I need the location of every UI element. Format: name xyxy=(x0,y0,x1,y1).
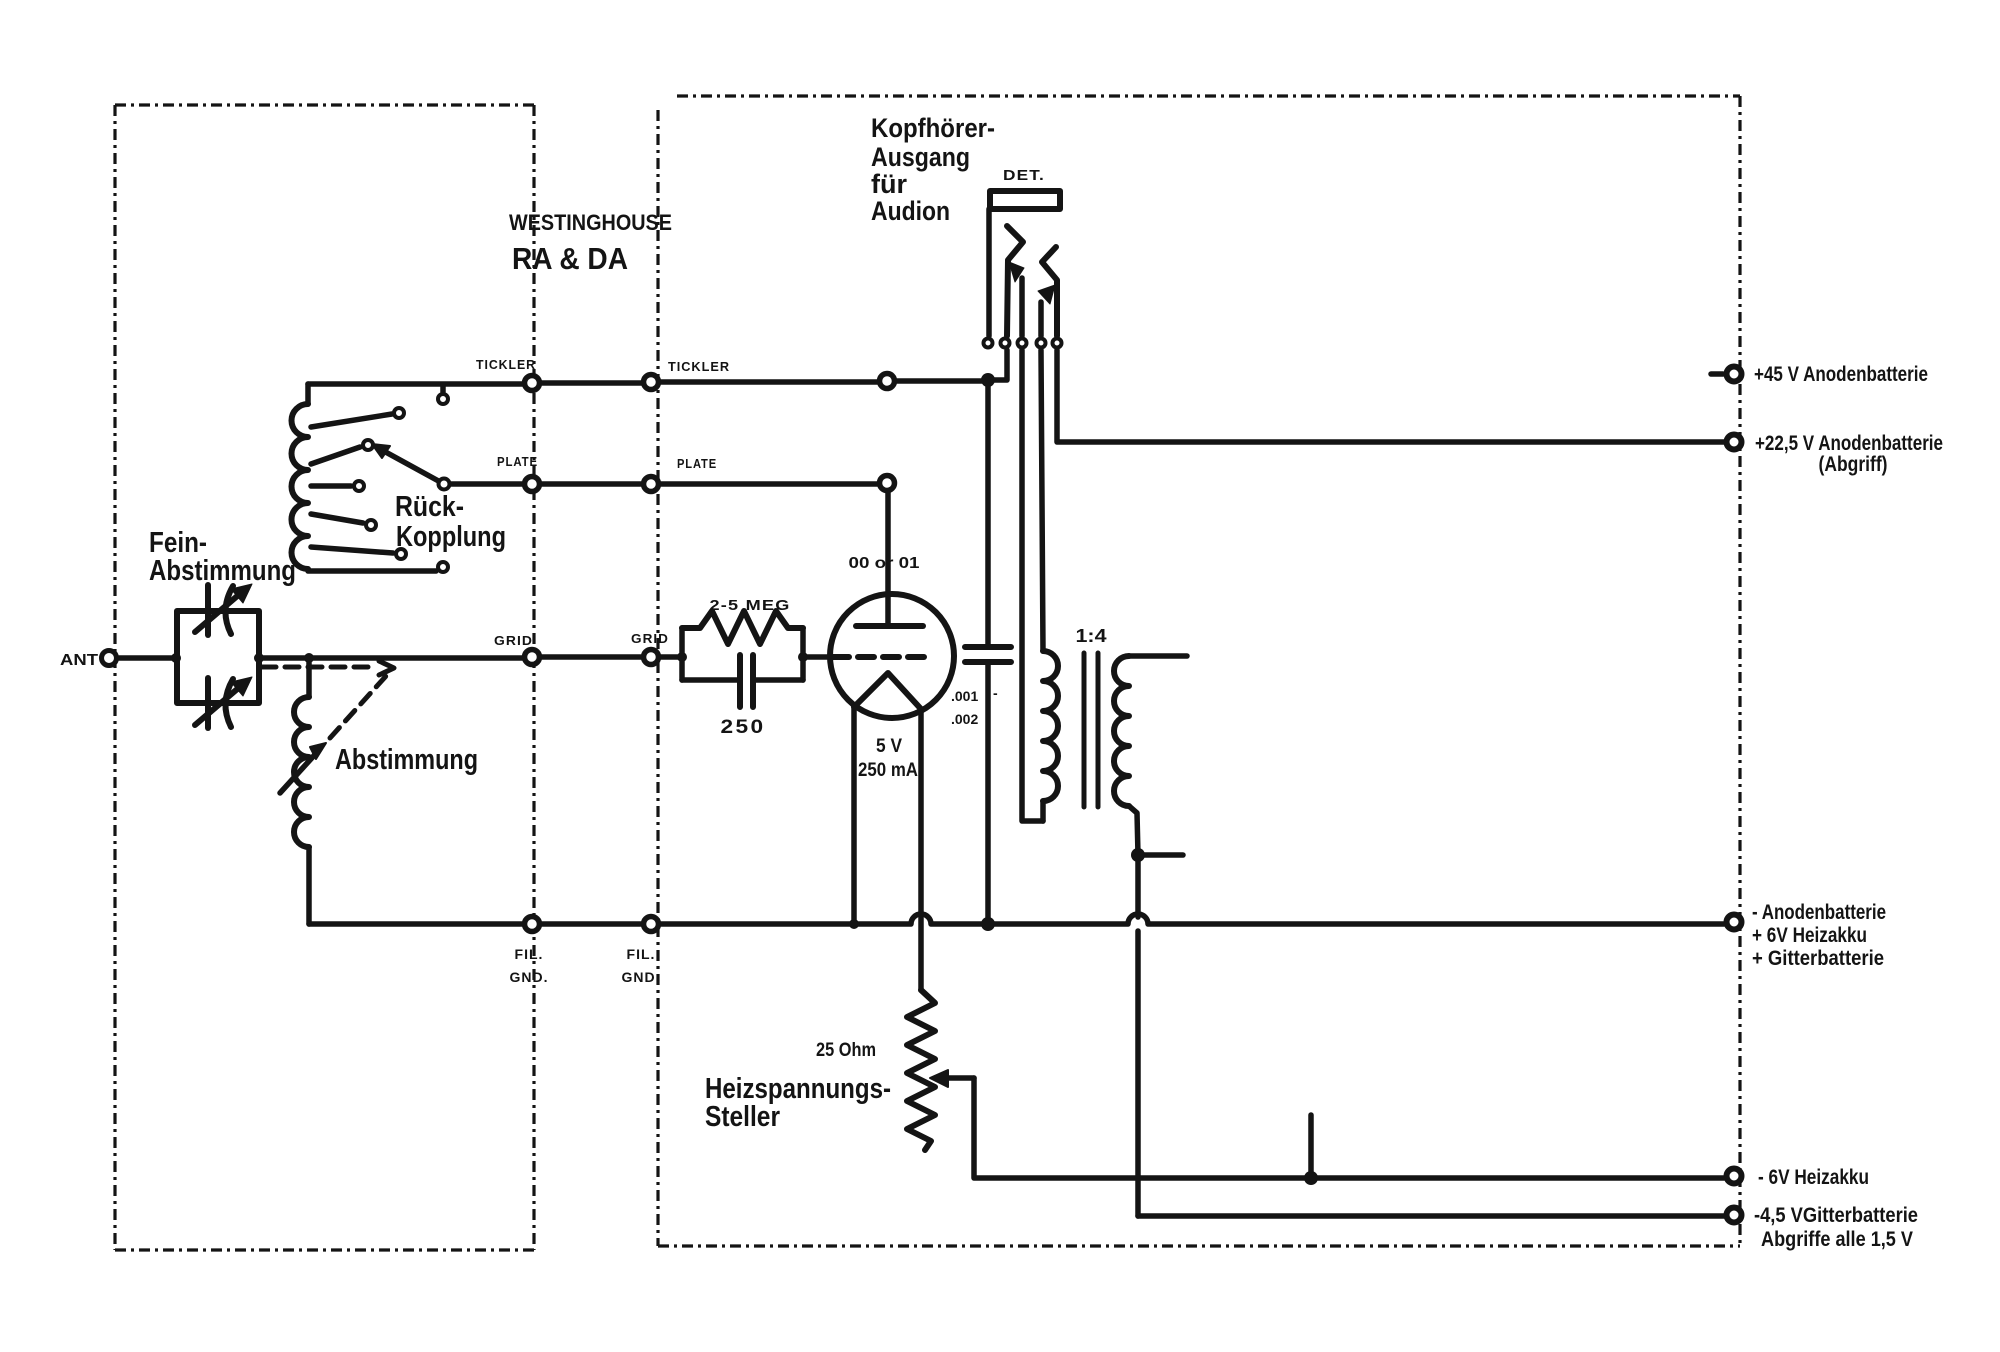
jack J1 DET sleeve xyxy=(990,191,1060,209)
terminal -6V xyxy=(1727,1169,1742,1184)
svg-text:- 6V Heizakku: - 6V Heizakku xyxy=(1758,1166,1869,1189)
terminal FIL GND (inner) xyxy=(525,917,540,932)
capacitor C3 .001/.002 xyxy=(965,647,1011,662)
tube V1 filament xyxy=(854,673,921,709)
svg-text:FIL.: FIL. xyxy=(515,946,544,962)
transformer T1 secondary winding xyxy=(1114,656,1129,806)
svg-text:2-5 MEG: 2-5 MEG xyxy=(710,597,791,614)
terminal GRID (outer) xyxy=(644,650,659,665)
svg-text:GND.: GND. xyxy=(622,969,661,985)
svg-text:.002: .002 xyxy=(951,711,978,727)
wire: secondary top lead xyxy=(1129,653,1187,659)
svg-text:00 or 01: 00 or 01 xyxy=(849,555,920,572)
socket terminal on tickler wire xyxy=(880,374,895,389)
vacuum tube V1 envelope xyxy=(830,594,954,718)
tap stub on tickler wire xyxy=(440,386,446,392)
svg-text:Kopfhörer-: Kopfhörer- xyxy=(871,113,995,143)
jack J1 wiper arrow A xyxy=(1019,278,1025,336)
svg-text:5 V: 5 V xyxy=(876,736,902,757)
jack J1 spring contact A xyxy=(1007,226,1023,336)
jack J1 spring contact B xyxy=(1042,247,1057,336)
wire: plate line xyxy=(451,481,877,487)
arrow of variable capacitor C1a xyxy=(195,592,242,632)
svg-text:FIL.: FIL. xyxy=(627,946,656,962)
svg-text:Kopplung: Kopplung xyxy=(396,521,506,553)
svg-text:RA & DA: RA & DA xyxy=(512,241,628,276)
svg-text:DET.: DET. xyxy=(1003,167,1045,184)
arrow of variable capacitor C1b xyxy=(195,685,242,725)
node: antenna box right junction xyxy=(254,653,264,663)
jack J1 contact circles xyxy=(984,339,993,348)
terminal -4.5V xyxy=(1727,1208,1742,1223)
svg-text:Rück-: Rück- xyxy=(395,491,464,523)
svg-text:Abgriffe alle 1,5 V: Abgriffe alle 1,5 V xyxy=(1761,1228,1913,1251)
svg-text:Ausgang: Ausgang xyxy=(871,142,970,172)
svg-text:PLATE: PLATE xyxy=(677,456,717,471)
svg-text:Abstimmung: Abstimmung xyxy=(149,555,296,587)
wire: secondary junction down to -4.5V line xyxy=(1135,855,1141,1216)
rheostat R2 25 Ohm zigzag xyxy=(907,990,935,1150)
svg-text:-4,5 VGitterbatterie: -4,5 VGitterbatterie xyxy=(1754,1204,1918,1227)
wire: secondary bottom lead xyxy=(1129,806,1138,855)
switch S1 rotor arm (Rück-Kopplung) xyxy=(382,450,444,484)
wire: jack contact 3 down to transformer primary bottom xyxy=(1022,350,1043,821)
node: tuning coil top junction xyxy=(304,653,314,663)
wire: grid line from tuning box to tube xyxy=(259,657,682,658)
node: filament left leg junction xyxy=(849,919,859,929)
wire: ANT lead xyxy=(119,655,176,661)
svg-text:250: 250 xyxy=(721,717,766,738)
wire: stub above -6V line xyxy=(1308,1115,1314,1178)
transformer T1 core xyxy=(1084,653,1098,807)
enclosure: right unit dash-dot boundary xyxy=(658,96,1740,1246)
terminal GRID (inner) xyxy=(525,650,540,665)
wire: +45V terminal stub xyxy=(1711,371,1723,377)
inductor L1 tickler coil xyxy=(305,384,311,404)
wire: tickler top lead xyxy=(308,381,988,384)
svg-text:TICKLER: TICKLER xyxy=(668,359,730,374)
svg-text:GRID: GRID xyxy=(631,631,669,646)
svg-text:250 mA: 250 mA xyxy=(858,760,918,781)
wire: filament/ground bus xyxy=(309,914,1724,924)
svg-text:+ Gitterbatterie: + Gitterbatterie xyxy=(1752,947,1884,970)
wire: -4.5V line xyxy=(1138,1213,1724,1219)
capacitor C1 frame (Fein-Abstimmung pair box) xyxy=(177,611,259,703)
svg-text:+22,5 V Anodenbatterie: +22,5 V Anodenbatterie xyxy=(1755,432,1943,455)
tube V1 plate xyxy=(856,623,923,629)
terminal TICKLER (outer) xyxy=(644,375,659,390)
node: antenna box left junction xyxy=(171,653,181,663)
wire: junction down to blocking capacitor xyxy=(985,380,991,647)
enclosure: left receiver unit dash-dot boundary xyxy=(115,105,534,1250)
tube V1 grid (dashed) xyxy=(833,654,924,660)
wire: jack contact 4 down to transformer primary top xyxy=(1041,350,1043,651)
svg-text:WESTINGHOUSE: WESTINGHOUSE xyxy=(509,210,672,235)
jack J1 wiper arrow B xyxy=(1038,302,1044,336)
svg-text:+ 6V Heizakku: + 6V Heizakku xyxy=(1752,924,1867,947)
svg-text:PLATE: PLATE xyxy=(497,454,538,469)
mechanical link (dashed) between C1 and L2 xyxy=(262,667,386,738)
capacitor C2 plates xyxy=(740,655,753,707)
terminal -Anodenbatterie xyxy=(1727,915,1742,930)
terminal ANT xyxy=(102,651,117,666)
wire: junction up to jack contact 2 xyxy=(988,350,1007,380)
svg-text:für: für xyxy=(871,169,907,199)
terminal +22.5V xyxy=(1727,435,1742,450)
node: capacitor to bus junction xyxy=(981,917,995,931)
svg-text:GND.: GND. xyxy=(510,969,549,985)
node: secondary junction xyxy=(1131,848,1145,862)
svg-text:Audion: Audion xyxy=(871,196,950,226)
svg-text:- Anodenbatterie: - Anodenbatterie xyxy=(1752,901,1886,924)
terminal FIL GND (outer) xyxy=(644,917,659,932)
capacitor C1b variable (bottom) xyxy=(208,678,233,728)
svg-text:TICKLER: TICKLER xyxy=(476,357,536,372)
terminal PLATE (inner) xyxy=(525,477,540,492)
terminal TICKLER (inner) xyxy=(525,376,540,391)
wire: filament right leg to rheostat xyxy=(918,709,924,990)
wire: filament left leg to bus xyxy=(851,707,857,924)
resistor R1 grid leak 2-5 MEG with capacitor C2 250 xyxy=(677,652,687,662)
switch S1 tap contacts xyxy=(311,414,392,427)
wire: rheostat wiper to -6V terminal xyxy=(974,1078,1724,1178)
terminal +45V xyxy=(1727,367,1742,382)
svg-text:25 Ohm: 25 Ohm xyxy=(816,1040,876,1061)
svg-text:.001: .001 xyxy=(951,688,978,704)
svg-text:ANT: ANT xyxy=(60,652,98,669)
wire: stub right of secondary junction xyxy=(1138,852,1183,858)
terminal PLATE (outer) xyxy=(644,477,659,492)
rheostat R2 wiper arrow xyxy=(944,1075,974,1081)
svg-text:(Abgriff): (Abgriff) xyxy=(1819,453,1888,476)
transformer T1 primary winding xyxy=(1043,651,1058,801)
inductor L2 Abstimmung (tuning coil) xyxy=(306,658,312,697)
svg-text:1:4: 1:4 xyxy=(1076,626,1107,646)
capacitor C1a variable (top) xyxy=(208,585,233,635)
socket terminal on plate wire xyxy=(880,476,895,491)
svg-text:Abstimmung: Abstimmung xyxy=(335,744,478,776)
wire: jack contact 5 to +22.5V terminal xyxy=(1057,350,1724,442)
svg-text:GRID: GRID xyxy=(494,633,533,648)
node: tickler/jack junction xyxy=(981,373,995,387)
svg-text:Steller: Steller xyxy=(705,1101,780,1133)
svg-text:+45 V Anodenbatterie: +45 V Anodenbatterie xyxy=(1754,363,1928,386)
svg-text:-: - xyxy=(993,685,998,701)
arrow of variable inductor L2 xyxy=(280,749,320,793)
wire: grid to tube xyxy=(803,654,831,660)
